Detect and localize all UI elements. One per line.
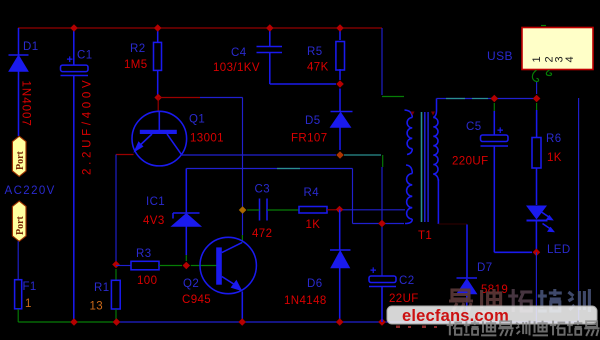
resistor R1 bbox=[111, 280, 120, 309]
svg-text:47K: 47K bbox=[307, 62, 329, 74]
transistor Q2 C945 bbox=[200, 237, 256, 322]
diode D7 5819 bbox=[457, 225, 478, 323]
wire: Q1 base stub down bbox=[157, 98, 159, 112]
wire: usb pin1 curl bbox=[532, 70, 538, 82]
svg-text:100: 100 bbox=[137, 275, 157, 287]
wire: green link to primary top bbox=[382, 96, 404, 98]
svg-text:R4: R4 bbox=[304, 187, 320, 199]
port Port (AC neutral) bbox=[12, 201, 26, 241]
usb connector box bbox=[522, 28, 593, 70]
wire: blue drop and link to primary bottom bbox=[381, 167, 383, 276]
resistor R5 bbox=[336, 28, 345, 80]
wire: aux feedback line y=168.5 bbox=[186, 168, 352, 170]
diode D6 1N4148 bbox=[330, 210, 351, 323]
wire: Q1 collector line bbox=[182, 154, 336, 156]
svg-text:D6: D6 bbox=[307, 278, 323, 290]
wire: usb pin2 curl bbox=[546, 70, 551, 76]
wire: neutral down to fuse bbox=[17, 241, 19, 279]
svg-text:D5: D5 bbox=[305, 115, 321, 127]
svg-text:4V3: 4V3 bbox=[143, 215, 165, 227]
resistor R2 bbox=[154, 28, 162, 98]
wire: base line to the right (red then blue) bbox=[158, 97, 200, 99]
junction snubber node (R5/C4/D5) bbox=[336, 80, 344, 88]
svg-text:C1: C1 bbox=[77, 50, 93, 62]
svg-text:1: 1 bbox=[25, 298, 31, 310]
wire: R3 right to node green bbox=[159, 265, 182, 267]
wire: fuse to ground rail (green stub) bbox=[17, 309, 19, 322]
junction bottom rail at C2 bbox=[378, 318, 386, 326]
wire: R6 green stub bbox=[536, 103, 538, 110]
wire: node to Q2 base green bbox=[191, 265, 217, 267]
svg-text:Port: Port bbox=[15, 215, 26, 235]
svg-text:R6: R6 bbox=[546, 133, 562, 145]
capacitor C2 22UF bbox=[369, 276, 396, 322]
svg-text:F1: F1 bbox=[23, 281, 37, 293]
svg-text:22UF: 22UF bbox=[389, 293, 419, 305]
svg-text:D1: D1 bbox=[23, 41, 39, 53]
zener IC1 4V3 bbox=[173, 169, 201, 256]
wire: secondary bottom to D7 (dark) bbox=[438, 223, 467, 225]
junction LED/C5 return node bbox=[533, 249, 541, 257]
diode D5 FR107 bbox=[331, 89, 353, 151]
svg-text:R5: R5 bbox=[307, 46, 323, 58]
svg-text:4: 4 bbox=[564, 56, 576, 62]
junction R4/D6 node bbox=[336, 206, 344, 214]
svg-text:+: + bbox=[370, 265, 376, 277]
watermark specks under box bbox=[396, 326, 437, 329]
resistor R4 bbox=[299, 207, 327, 214]
junction on top rail at C1 bbox=[70, 24, 78, 32]
transistor Q1 13001 bbox=[132, 111, 187, 166]
junction C3 left node (olive) bbox=[239, 206, 247, 214]
svg-text:IC1: IC1 bbox=[146, 196, 165, 208]
wire: green stub to R1 bbox=[115, 269, 117, 280]
junction R1 top node bbox=[112, 261, 120, 269]
transformer T1 primary winding bbox=[405, 110, 413, 155]
wire: emitter stub red bbox=[116, 154, 134, 156]
resistor R6 bbox=[532, 110, 541, 205]
wire: C3 left lead green bbox=[247, 209, 259, 211]
green tick above usb box bbox=[541, 25, 546, 27]
svg-text:C945: C945 bbox=[182, 294, 211, 306]
wire: C3 right lead green bbox=[267, 209, 299, 211]
wire: green drop to primary bottom path bbox=[382, 155, 384, 167]
capacitor C4 bbox=[257, 28, 337, 84]
svg-text:103/1KV: 103/1KV bbox=[213, 62, 260, 74]
wire: LED node down to ground rail bbox=[535, 252, 537, 322]
junction collector/D5 node (olive) bbox=[336, 151, 344, 159]
fuse F1 bbox=[15, 280, 22, 309]
svg-text:C5: C5 bbox=[466, 121, 482, 133]
port Port (AC live) bbox=[12, 136, 26, 176]
svg-text:2.2UF/400V: 2.2UF/400V bbox=[82, 77, 94, 175]
junction bottom rail at C1 bbox=[70, 318, 78, 326]
svg-text:T1: T1 bbox=[418, 230, 432, 242]
svg-text:C2: C2 bbox=[399, 275, 415, 287]
svg-text:+: + bbox=[497, 125, 503, 137]
wire: zener green stub bbox=[185, 255, 187, 261]
watermark hanzi row 2 bbox=[447, 321, 600, 336]
junction output at R6/USB bbox=[533, 95, 541, 103]
wire: vertical base/feedback bus x=242.6 bbox=[242, 98, 244, 236]
watermark white box bbox=[387, 306, 597, 324]
wire: R3 left lead bbox=[116, 265, 131, 267]
capacitor C5 220UF bbox=[481, 111, 533, 252]
wire: collector green tick bbox=[241, 235, 243, 243]
junction bottom rail at R1 bbox=[113, 318, 121, 326]
svg-text:AC220V: AC220V bbox=[5, 185, 56, 197]
capacitor C1 bbox=[61, 28, 89, 322]
junction output at C5 bbox=[491, 95, 499, 103]
svg-text:1K: 1K bbox=[306, 219, 321, 231]
resistor R3 bbox=[131, 261, 159, 270]
wire: bottom rail left (green) bbox=[18, 321, 117, 323]
svg-text:13001: 13001 bbox=[190, 133, 224, 145]
wire: top DC+ rail bbox=[18, 27, 382, 29]
wire: secondary output line y=98.5 bbox=[437, 98, 538, 100]
wire: top rail corner down to transformer primary (blue vertical) bbox=[381, 28, 383, 95]
junction Q1 base node bbox=[154, 94, 162, 102]
svg-text:472: 472 bbox=[252, 228, 272, 240]
junction aux/C2 node bbox=[378, 220, 386, 228]
svg-text:220UF: 220UF bbox=[452, 156, 489, 168]
junction top rail at C4 bbox=[266, 24, 274, 32]
wire: right-edge return vertical bbox=[578, 98, 580, 322]
wire: emitter vertical down to R1 bbox=[115, 155, 117, 263]
svg-text:Q2: Q2 bbox=[183, 278, 199, 290]
wire: bottom rail right (blue) bbox=[117, 321, 580, 323]
diode D1 bbox=[9, 28, 29, 136]
svg-text:R3: R3 bbox=[136, 248, 152, 260]
junction bottom rail at Q2 bbox=[238, 318, 246, 326]
svg-text:USB: USB bbox=[487, 49, 513, 63]
svg-text:R2: R2 bbox=[130, 43, 146, 55]
LED bbox=[526, 206, 555, 251]
junction zener/R3/Q2 base node bbox=[183, 262, 191, 270]
capacitor C3 bbox=[260, 199, 268, 221]
svg-text:D7: D7 bbox=[477, 262, 493, 274]
wire: C5 green stub bbox=[493, 103, 495, 111]
wire: R1 bottom green stub bbox=[115, 309, 117, 322]
svg-text:1N4148: 1N4148 bbox=[284, 295, 327, 307]
svg-text:13: 13 bbox=[90, 301, 104, 313]
svg-text:Port: Port bbox=[15, 150, 26, 170]
wire: usb pin1 down to output node bbox=[536, 82, 538, 94]
transformer T1 secondary winding bbox=[433, 99, 438, 225]
svg-text:R1: R1 bbox=[94, 282, 110, 294]
junction top rail at R5 bbox=[336, 24, 344, 32]
transformer T1 aux winding bbox=[405, 165, 412, 224]
junction bottom rail at D6 bbox=[336, 318, 344, 326]
svg-text:+: + bbox=[67, 54, 73, 66]
svg-text:LED: LED bbox=[547, 244, 571, 256]
junction on top rail at R2 bbox=[154, 24, 162, 32]
watermark hanzi row 1 bbox=[449, 289, 589, 313]
svg-text:1: 1 bbox=[531, 56, 543, 62]
usb pin numbers bbox=[531, 56, 576, 62]
svg-text:C4: C4 bbox=[231, 47, 247, 59]
transformer polarity marks bbox=[411, 112, 415, 116]
svg-text:1N4007: 1N4007 bbox=[20, 81, 32, 127]
svg-text:FR107: FR107 bbox=[291, 133, 328, 145]
svg-text:1M5: 1M5 bbox=[124, 59, 148, 71]
svg-text:1K: 1K bbox=[547, 152, 562, 164]
svg-text:Q1: Q1 bbox=[189, 114, 205, 126]
transformer T1 core bbox=[422, 112, 429, 222]
wire: R4 right lead red bbox=[327, 209, 336, 211]
svg-text:C3: C3 bbox=[255, 184, 271, 196]
wire: collector line teal segment bbox=[344, 154, 381, 156]
